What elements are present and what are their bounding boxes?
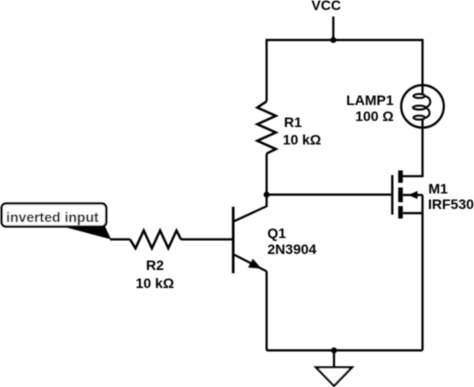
wire R2 to Q1 base bbox=[181, 238, 232, 240]
svg-text:R1: R1 bbox=[284, 114, 302, 130]
callout pointer bbox=[61, 226, 111, 239]
wire gate (junction to M1 gate) bbox=[267, 194, 392, 196]
body line with arrow to source bbox=[403, 194, 423, 196]
wire M1 source to bottom rail bbox=[421, 213, 423, 350]
wire input to R2 bbox=[110, 238, 130, 240]
wire top rail to lamp bbox=[421, 39, 423, 85]
channel bar middle bbox=[398, 188, 403, 203]
wire top rail bbox=[267, 39, 423, 41]
wire Q1 emitter to bottom rail bbox=[266, 271, 268, 350]
svg-text:100 Ω: 100 Ω bbox=[355, 108, 393, 124]
collector lead bbox=[233, 195, 266, 222]
wire VCC rail down to R1 bbox=[266, 39, 268, 102]
svg-text:M1: M1 bbox=[428, 180, 448, 196]
channel bar top bbox=[398, 170, 403, 182]
svg-text:Q1: Q1 bbox=[267, 225, 286, 241]
source/body vertical tie bbox=[421, 195, 423, 213]
lamp LAMP1 bbox=[401, 85, 444, 128]
callout box bbox=[2, 204, 107, 227]
junction dot ground node bbox=[331, 347, 337, 353]
transistor M1 (IRF530 NMOS) bbox=[392, 170, 422, 218]
svg-text:inverted input: inverted input bbox=[6, 209, 99, 225]
svg-text:LAMP1: LAMP1 bbox=[346, 92, 394, 108]
gate plate bbox=[391, 175, 393, 215]
base bar bbox=[232, 207, 235, 274]
svg-text:10 kΩ: 10 kΩ bbox=[136, 275, 174, 291]
svg-text:10 kΩ: 10 kΩ bbox=[283, 132, 321, 148]
emitter lead bbox=[233, 254, 266, 271]
resistor R1 bbox=[257, 101, 276, 153]
svg-text:VCC: VCC bbox=[311, 0, 341, 13]
emitter arrow bbox=[248, 259, 262, 269]
wire bottom rail bbox=[267, 349, 423, 351]
wire VCC stub bbox=[332, 17, 334, 41]
svg-text:IRF530: IRF530 bbox=[428, 196, 474, 212]
ground bbox=[316, 367, 352, 386]
transistor Q1 (2N3904 NPN) bbox=[233, 195, 266, 274]
svg-text:R2: R2 bbox=[146, 257, 164, 273]
junction dot gate/collector node bbox=[264, 192, 270, 198]
wire lamp to M1 drain bbox=[401, 128, 423, 177]
resistor R2 bbox=[130, 231, 181, 249]
channel bar bottom bbox=[398, 206, 403, 218]
svg-text:2N3904: 2N3904 bbox=[267, 241, 316, 257]
junction dot VCC rail bbox=[330, 37, 336, 43]
wire ground stub bbox=[333, 350, 335, 367]
source tap line bbox=[403, 212, 423, 214]
wire R1 to gate junction bbox=[266, 154, 268, 195]
